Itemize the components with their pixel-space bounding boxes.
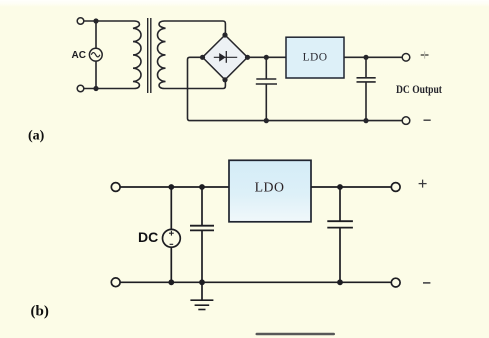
LDO U2 box: [229, 160, 311, 222]
wire bridge left to bottom rail: [188, 57, 403, 120]
junction (b) DC top: [168, 184, 174, 190]
junction bridge bottom: [222, 77, 227, 82]
label DC: [138, 229, 158, 245]
svg-text:DC Output: DC Output: [396, 84, 442, 96]
junction bridge left: [200, 55, 205, 60]
junction C1 top: [264, 55, 269, 60]
capacitor C3 plates: [190, 226, 214, 231]
terminal (b) top-right: [391, 183, 400, 192]
transformer T1 primary winding + leads: [84, 21, 141, 89]
label plus (b): [419, 180, 427, 188]
junction C2 bottom: [363, 118, 368, 123]
svg-text:(b): (b): [31, 304, 49, 320]
terminal output bottom (a): [402, 117, 410, 125]
DC source V2: [163, 229, 181, 247]
junction bridge right: [245, 55, 250, 60]
label (b): [31, 304, 49, 320]
capacitor C4 plates: [327, 221, 353, 227]
label plus (a): [421, 51, 429, 58]
wire LDO to output: [344, 56, 403, 58]
DC source V2 bottom lead: [170, 247, 172, 282]
junction C3 top: [199, 184, 205, 190]
bridge rectifier D1 diode symbol: [214, 51, 237, 63]
junction C3 bottom: [199, 279, 205, 285]
label (a): [28, 129, 45, 144]
junction AC bottom: [93, 86, 98, 91]
wire (b) top rail left: [120, 186, 229, 188]
wire (b) bottom rail: [120, 281, 391, 283]
ground: [190, 300, 213, 309]
label AC: [72, 50, 86, 61]
bridge rectifier D1 body: [203, 35, 248, 80]
capacitor C1 plates: [256, 79, 277, 84]
junction C4 top: [337, 184, 343, 190]
wire LDO (b) to output: [311, 186, 391, 188]
DC source V2 top lead: [170, 187, 172, 229]
terminal input bottom-left: [77, 85, 84, 92]
capacitor C2 plates: [357, 78, 376, 82]
junction C1 bottom: [264, 118, 269, 123]
wire AC vertical: [95, 21, 97, 89]
terminal (b) top-left: [111, 183, 120, 192]
transformer T1 core: [148, 18, 151, 93]
wire ground lead: [201, 282, 203, 300]
junction C2 top: [363, 55, 368, 60]
junction bridge top: [222, 32, 227, 37]
capacitor C3 bottom lead: [201, 230, 203, 282]
capacitor C1 top lead: [265, 57, 267, 79]
label minus (a): [424, 119, 431, 121]
junction (b) DC bottom: [168, 279, 174, 285]
capacitor C4 bottom lead: [339, 228, 341, 283]
svg-text:DC: DC: [138, 229, 158, 245]
terminal input top-left: [77, 18, 84, 25]
top light band: [0, 0, 489, 7]
LDO U1 box: [286, 37, 344, 78]
terminal (b) bottom-right: [391, 278, 400, 287]
junction AC top: [93, 18, 98, 23]
capacitor C4 top lead: [339, 187, 341, 221]
caption bar bottom: [256, 333, 336, 336]
capacitor C2 top lead: [365, 57, 367, 78]
wire bridge right to LDO: [248, 56, 287, 58]
capacitor C2 bottom lead: [365, 82, 367, 121]
svg-text:(a): (a): [28, 129, 45, 144]
svg-text:LDO: LDO: [303, 51, 328, 63]
capacitor C1 bottom lead: [265, 84, 267, 121]
capacitor C3 top lead: [201, 187, 203, 226]
terminal output top (a): [402, 54, 410, 62]
terminal (b) bottom-left: [111, 278, 120, 287]
AC source V1: [89, 48, 102, 61]
transformer T1 secondary winding + leads: [157, 21, 225, 89]
label minus (b): [423, 282, 430, 284]
svg-text:LDO: LDO: [255, 179, 285, 194]
svg-text:AC: AC: [72, 50, 86, 61]
junction C4 bottom: [337, 279, 343, 285]
label DC Output: [396, 84, 442, 96]
